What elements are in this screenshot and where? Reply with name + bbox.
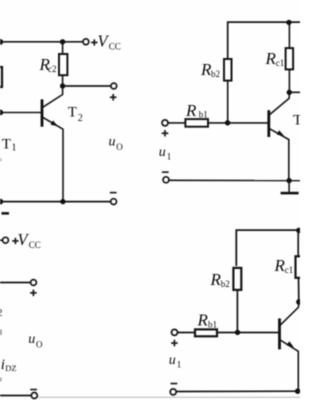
terminal output + circuit c left [31,280,37,286]
label - above input bottom terminal c [171,383,178,385]
label + under output terminal left [30,290,37,297]
resistor Rc1 circuit c (cut at right) [296,230,304,300]
resistor Rc1 [286,22,294,90]
ground fragment at left edge [2,212,10,215]
svg-text:R: R [274,256,286,275]
terminal input + circuit c [172,329,178,335]
node half-dot left edge bottom rail [0,199,3,205]
svg-text:2: 2 [0,308,2,319]
svg-text:c1: c1 [276,58,285,68]
terminal output - circuit a [111,199,117,205]
node junction base circuit c [235,330,240,335]
node half-dot left edge base wire [0,110,3,116]
svg-text:DZ: DZ [5,363,16,373]
svg-text:R: R [185,101,197,120]
label partial glyph at left edge y327 [0,330,2,336]
svg-text:O: O [36,340,43,350]
node collector junction circuit c [296,299,302,305]
svg-text:R: R [210,270,222,289]
terminal input - circuit c [170,389,176,395]
wire input to Rb1 c [178,332,196,334]
wire bottom - lead circuit c left [0,395,31,397]
svg-text:u: u [159,145,166,160]
wire Rb1 to base node c [217,332,279,334]
resistor Rb1 [185,119,208,127]
svg-text:T: T [2,137,11,153]
label partial glyph at left edge y159 [0,158,2,161]
wire top rail stage1 (circuit b) [228,22,300,59]
resistor Rc2 [59,42,67,86]
svg-text:1: 1 [12,143,17,154]
svg-text:b2: b2 [221,279,230,289]
resistor Rb2 circuit c [233,268,241,331]
label uo circuit a [109,135,124,153]
wire +Vcc stub circuit c left [0,239,3,241]
svg-text:O: O [116,142,123,152]
terminal input - circuit b [163,177,169,183]
svg-text:b1: b1 [199,109,208,119]
svg-text:u: u [169,353,176,368]
node junction emitter bottom rail [286,178,291,183]
svg-text:c2: c2 [48,64,57,74]
label + under output terminal [110,94,117,101]
node junction top rail right edge [296,228,302,234]
wire output + lead circuit c left [0,282,31,284]
label T2 [68,105,83,124]
terminal +Vcc circuit a [83,39,89,45]
wire faint scan line bottom [38,396,300,398]
svg-text:u: u [28,332,35,347]
svg-text:1: 1 [167,152,172,162]
transistor T1 circuit c [280,304,299,391]
terminal +Vcc circuit c left [3,237,9,243]
wire bottom rail circuit a [0,201,111,203]
wire collector to right edge [289,91,300,93]
label uo circuit c left [28,332,43,349]
terminal output + circuit a [111,83,117,89]
svg-text:R: R [197,311,209,330]
node collector junction stage1 [287,90,292,95]
resistor Rb2 [224,59,232,121]
svg-text:CC: CC [109,41,121,51]
label +Vcc circuit a [91,32,121,52]
svg-text:T: T [68,105,77,121]
label u1 circuit c [169,353,182,369]
svg-text:CC: CC [29,240,41,250]
node collector junction T2 [60,83,65,88]
transistor T1 stage1 circuit b [269,94,289,180]
svg-text:u: u [109,135,116,150]
terminal output - circuit c left [31,393,37,399]
label partial glyph at left edge y379 [0,378,2,382]
label Rb1 circuit c [197,311,218,330]
ground circuit b [281,181,299,195]
label - above output terminal left [30,389,37,391]
resistor Rb1 circuit c [195,329,217,336]
label T1 (cut at left) [2,137,17,154]
resistor partial at left edge (cut) [0,66,3,88]
wire Rb1 to base node [208,122,268,124]
svg-text:1: 1 [177,360,182,370]
node junction base T1 stage1 [225,120,230,125]
label u1 circuit b [159,145,172,161]
svg-text:c1: c1 [285,265,294,275]
transistor T2 [42,88,63,201]
node junction top of Rc1 [286,20,291,25]
wire output + lead circuit a [63,85,111,87]
wire bottom rail circuit b [169,179,300,181]
label Rb2 circuit c [210,270,230,289]
wire input to Rb1 [168,122,185,124]
label iDZ [1,357,17,373]
label + under input terminal c [171,340,178,347]
label Rc2 [39,55,57,74]
label - above output terminal [110,192,117,194]
svg-text:2: 2 [78,113,83,124]
wire top rail stage2 (circuit a) [0,41,83,43]
node junction top of Rc2 [60,39,65,44]
svg-text:R: R [265,49,277,68]
label Rb1 [185,101,208,120]
wire base T2 [0,112,42,114]
terminal input + circuit b [162,120,168,126]
node half-dot left edge top rail [0,39,3,45]
label Rb2 [200,60,220,79]
svg-text:b1: b1 [208,319,217,329]
wire bottom rail circuit c [176,390,298,392]
label + under input terminal [162,130,169,137]
label +Vcc circuit c left [12,230,41,250]
label - above input bottom terminal [162,171,169,173]
node junction emitter T2 bottom rail [60,199,65,204]
node junction emitter bottom rail c [295,388,301,394]
svg-text:T: T [293,113,300,129]
label Rc1 circuit c [274,256,294,275]
svg-text:b2: b2 [211,69,220,79]
label Rc1 [265,49,285,68]
wire top rail circuit c [236,230,299,266]
